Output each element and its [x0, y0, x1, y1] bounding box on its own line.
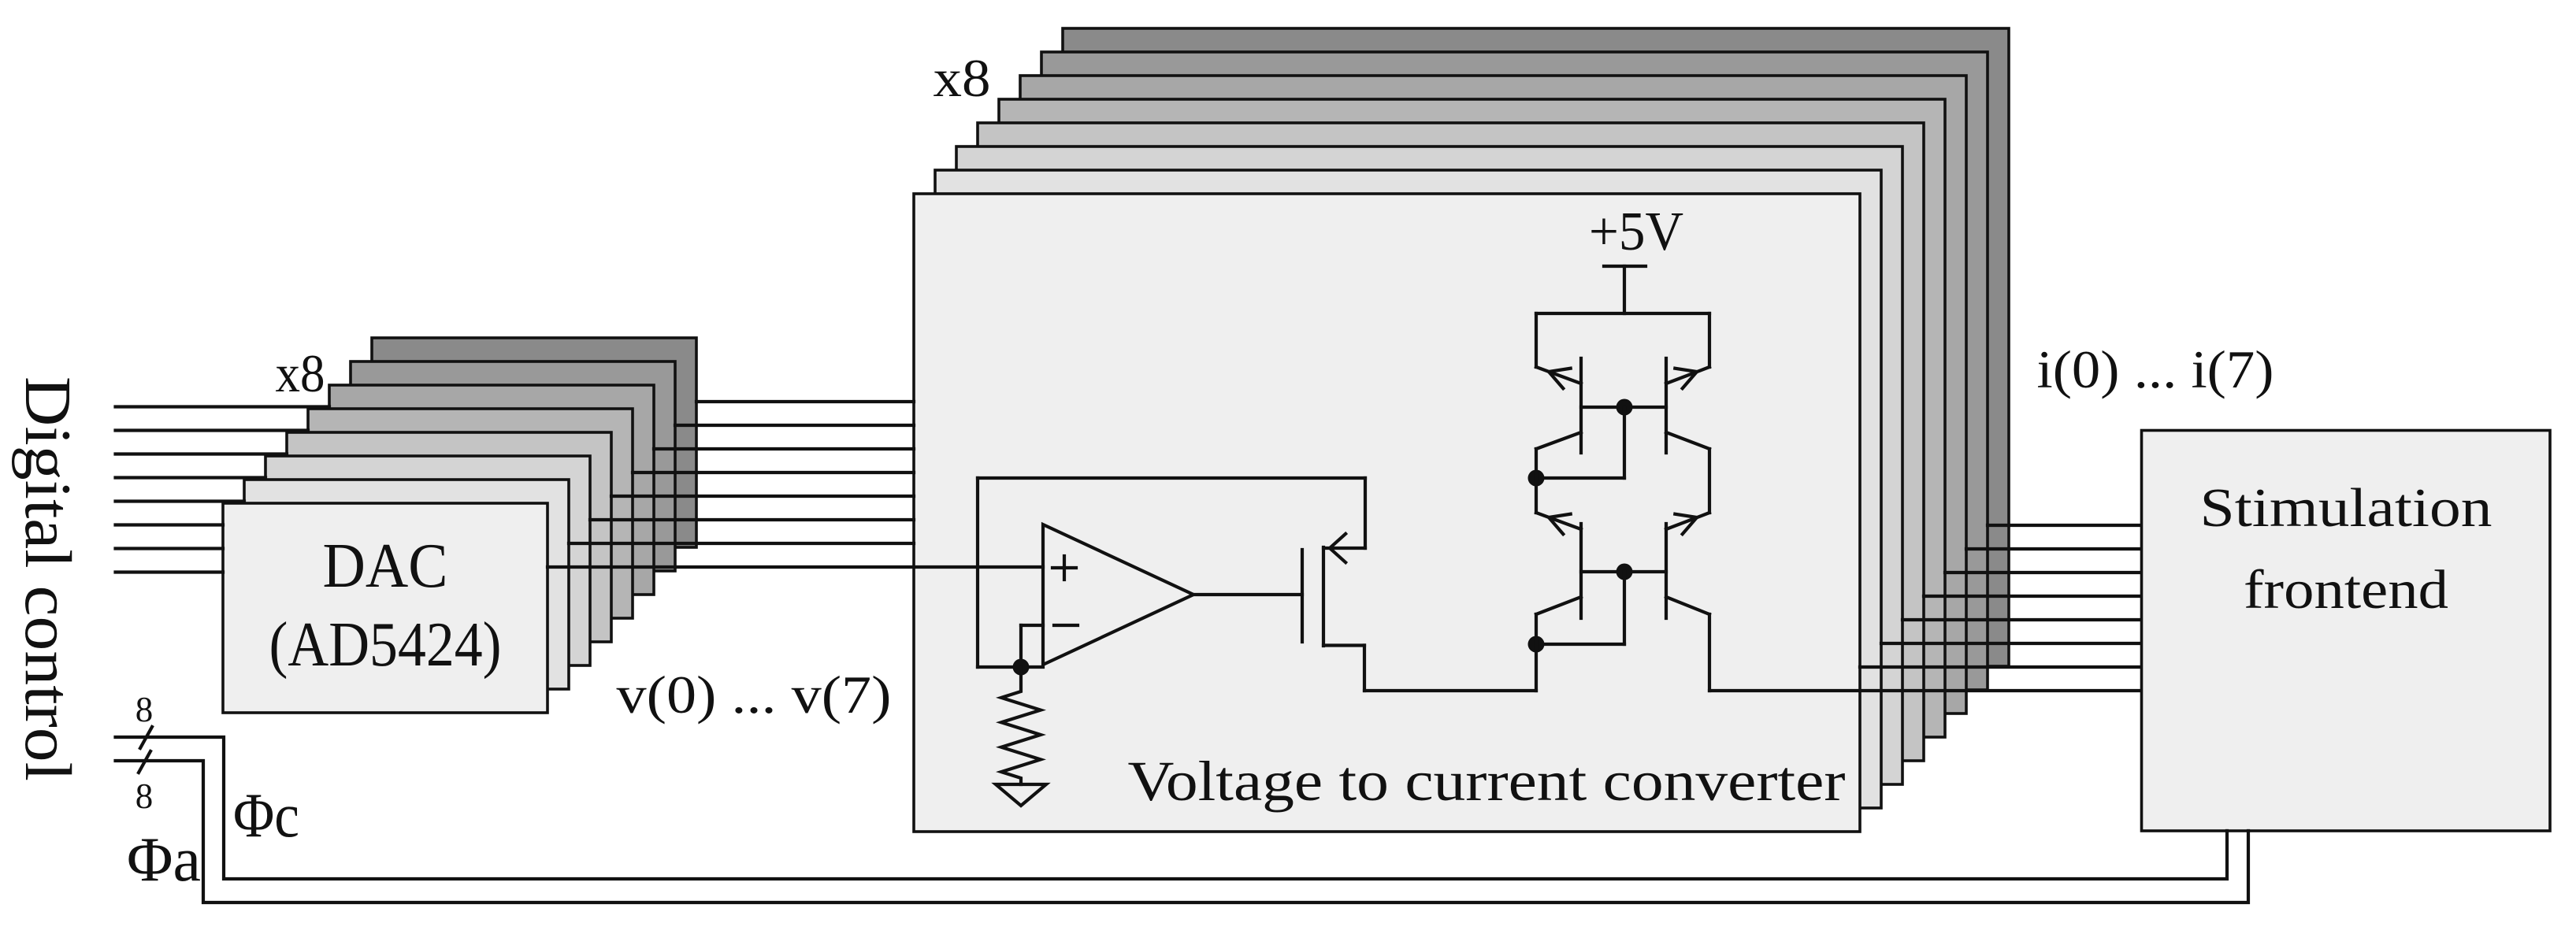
- transistor Q2 (top-left PNP): [1579, 358, 1583, 453]
- svg-text:Stimulation: Stimulation: [2200, 478, 2492, 539]
- wire v(6): [675, 424, 914, 427]
- wire v(1): [569, 542, 914, 545]
- converter box layer 4: [978, 123, 1924, 761]
- wire op-amp output to gate: [1193, 593, 1302, 596]
- svg-text:x8: x8: [276, 343, 325, 403]
- converter box layer 8: [1063, 28, 2009, 666]
- svg-text:DAC: DAC: [323, 532, 448, 601]
- transistor Q1 drain lead: [1323, 643, 1364, 647]
- digital control input wire 6: [116, 428, 309, 432]
- wire i(7): [1988, 524, 2142, 527]
- DAC box layer 3: [265, 456, 590, 665]
- svg-text:+5V: +5V: [1589, 202, 1683, 262]
- node feedback junction: [1013, 659, 1030, 676]
- transistor Q1 source lead: [1323, 547, 1365, 550]
- DAC box layer 7: [351, 361, 675, 571]
- Stimulation frontend box: [2142, 431, 2551, 832]
- wire v(7): [696, 400, 914, 403]
- op-amp plus input pin: [1052, 566, 1076, 569]
- transistor Q4 (bottom-left PNP): [1579, 524, 1583, 618]
- svg-text:Digital control: Digital control: [11, 376, 84, 781]
- bus slash 8 (Phi-a): [139, 751, 150, 773]
- ground: [996, 784, 1046, 806]
- svg-text:Voltage to current converter: Voltage to current converter: [1128, 750, 1846, 813]
- converter front box: [914, 194, 1860, 832]
- converter box layer 6: [1020, 76, 1966, 713]
- DAC box layer 8: [372, 338, 696, 547]
- DAC box layer 2: [244, 480, 569, 689]
- DAC box layer 5: [308, 409, 633, 618]
- svg-text:frontend: frontend: [2244, 560, 2448, 621]
- digital control input wire 1: [116, 547, 224, 550]
- DAC box layer 4: [287, 432, 611, 642]
- wire i(1): [1860, 665, 2142, 669]
- wire i(0): [1709, 689, 2142, 692]
- wire v(2): [590, 518, 914, 521]
- digital control input wire 2: [116, 523, 224, 526]
- wire base rail 2: [1581, 570, 1666, 573]
- digital control input wire 0: [116, 570, 224, 573]
- wire right cascode vertical: [1708, 449, 1711, 513]
- digital control input wire 5: [116, 452, 288, 455]
- transistor Q1 channel bar: [1322, 547, 1325, 646]
- svg-text:8: 8: [135, 690, 154, 729]
- wire i(4): [1924, 595, 2142, 598]
- svg-text:(AD5424): (AD5424): [269, 610, 502, 680]
- transistor Q1 (MOSFET) gate bar: [1301, 550, 1304, 642]
- wire mirror right leg (output): [1708, 614, 1711, 691]
- wire minus input: [1021, 624, 1043, 627]
- wire i(5): [1945, 571, 2142, 574]
- svg-text:i(0) ... i(7): i(0) ... i(7): [2037, 339, 2274, 399]
- wire drain to mirror: [1364, 689, 1536, 692]
- converter box layer 5: [999, 99, 1945, 737]
- op-amp minus input pin: [1054, 624, 1078, 627]
- wire v(0): [547, 565, 1043, 569]
- svg-text:v(0) ... v(7): v(0) ... v(7): [617, 665, 892, 725]
- transistor Q3 (top-right PNP): [1665, 358, 1668, 453]
- wire base2 to collector2: [1623, 572, 1626, 644]
- wire Phi-c bus: [116, 737, 2228, 879]
- node collector1: [1528, 470, 1545, 487]
- wire i(6): [1966, 547, 2142, 550]
- DAC box layer 6: [329, 385, 654, 595]
- wire v(5): [654, 447, 914, 450]
- DAC U1 front box (AD5424): [223, 503, 547, 713]
- resistor R1: [1001, 667, 1041, 784]
- wire base rail 1: [1581, 406, 1666, 409]
- digital control input wire 7: [116, 405, 330, 408]
- transistor Q5 (bottom-right PNP): [1665, 524, 1668, 618]
- converter box layer 3: [956, 146, 1902, 784]
- node collector2: [1528, 636, 1545, 653]
- converter box layer 7: [1041, 52, 1988, 690]
- wire i(3): [1902, 618, 2142, 621]
- svg-text:Φa: Φa: [127, 825, 201, 895]
- wire v(4): [633, 471, 914, 474]
- op-amp U2: [1043, 524, 1193, 665]
- wire mirror left leg: [1535, 614, 1538, 691]
- digital control input wire 4: [116, 476, 266, 479]
- wire base1 to collector: [1623, 407, 1626, 478]
- wire mirror top rail: [1536, 312, 1709, 315]
- +5V supply bar: [1604, 265, 1646, 268]
- converter box layer 2: [935, 170, 1881, 808]
- svg-text:8: 8: [135, 776, 154, 816]
- wire left cascode vertical: [1535, 449, 1538, 513]
- digital control input wire 3: [116, 499, 245, 502]
- node base2: [1616, 564, 1633, 580]
- svg-text:x8: x8: [934, 48, 991, 108]
- wire v(3): [611, 495, 914, 498]
- wire i(2): [1881, 642, 2142, 645]
- bus slash 8 (Phi-c): [140, 727, 152, 748]
- wire Phi-a bus: [116, 761, 2249, 902]
- svg-text:Φc: Φc: [233, 781, 299, 851]
- op-amp U2 feedback loop wire: [976, 478, 979, 667]
- node base1: [1616, 399, 1633, 416]
